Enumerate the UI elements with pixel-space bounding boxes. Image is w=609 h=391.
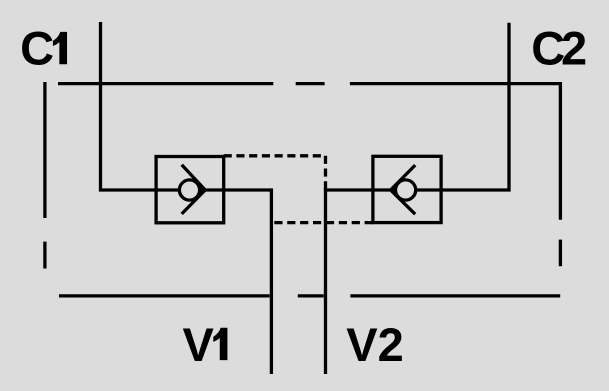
svg-text:C: C bbox=[20, 22, 54, 75]
svg-text:V2: V2 bbox=[346, 318, 404, 371]
svg-text:C2: C2 bbox=[531, 22, 586, 75]
svg-text:V: V bbox=[183, 318, 215, 371]
